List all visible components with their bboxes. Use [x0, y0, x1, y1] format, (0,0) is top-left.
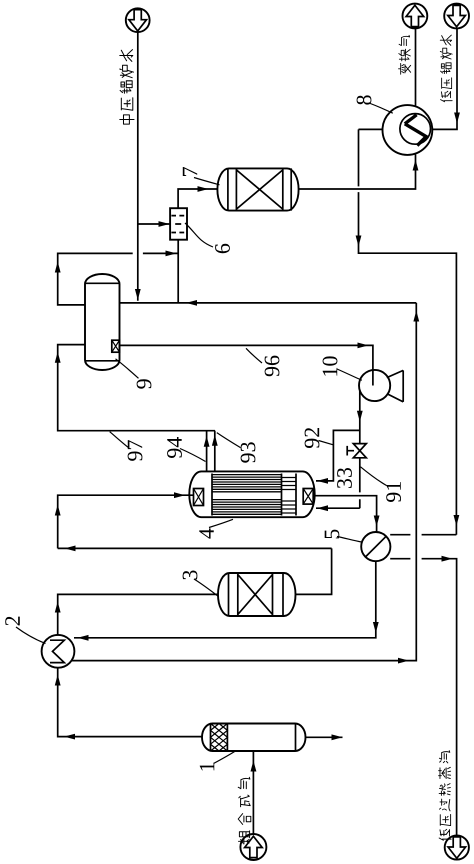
- heat exchanger 2: [42, 635, 75, 668]
- stream label: raw syngas (粗合成气): [238, 777, 251, 844]
- wire: pump 10 discharge through valve 91 to exchanger 4 lower nozzle: [316, 390, 363, 511]
- separator vessel 1: [202, 724, 306, 752]
- gas cooler 8: [383, 105, 433, 155]
- reactor 7: [217, 168, 298, 210]
- label 3: [183, 570, 198, 579]
- wire: LP boiler water into cooler 8 right: [432, 29, 460, 130]
- stream label: MP boiler water (中压锅炉水): [120, 50, 134, 125]
- label 1: [200, 763, 215, 771]
- waste heat exchanger 4: [189, 471, 314, 517]
- wire: drum 9 upper left outlet to mixer 6: [55, 251, 178, 305]
- wire: reactor 3 outlet line across left: [58, 546, 332, 595]
- label 92: [305, 428, 320, 448]
- stream label: LP superheated steam (低压过热蒸汽): [439, 751, 452, 841]
- mixer 6: [170, 208, 187, 240]
- label 10: [323, 356, 338, 375]
- label 3 leader: [194, 579, 219, 597]
- stream label: shift gas (变换气): [399, 35, 411, 74]
- steam drum 9: [85, 274, 120, 370]
- label 9 leader: [116, 359, 139, 379]
- wire: exchanger 5 bottom to exchanger 2 hot inlet: [74, 561, 379, 641]
- label 7 leader: [194, 178, 220, 185]
- label 94 leader: [180, 449, 206, 462]
- label 4 leader: [209, 519, 233, 527]
- label 5 leader: [337, 537, 362, 543]
- wire: branch 92 to exchanger 4 upper nozzle: [316, 430, 360, 483]
- label 4: [199, 528, 213, 538]
- wire: exchanger 5 right outlet down to LP steam outlet: [390, 556, 456, 836]
- stream symbol: LP superheated steam outlet circle: [445, 835, 469, 859]
- wire: mixer 6 top to reactor 7 inlet: [178, 186, 217, 208]
- stream symbol: MP boiler water inlet circle: [126, 8, 150, 32]
- label 9: [137, 379, 152, 388]
- stream label: LP boiler water (低压锅炉水): [440, 35, 452, 102]
- label 6 leader: [185, 223, 213, 247]
- label 96 leader: [246, 348, 262, 363]
- label 93 leader: [217, 433, 241, 448]
- label 7: [183, 167, 197, 176]
- label 10 leader: [337, 369, 362, 380]
- wire: riser 93 from exchanger 4: [212, 431, 218, 472]
- label 97 leader: [110, 432, 129, 448]
- label 8: [357, 95, 372, 104]
- wire: separator 1 drain arrow: [306, 734, 343, 740]
- label 6: [215, 244, 230, 253]
- reactor 3: [218, 573, 296, 616]
- label 91: [386, 482, 401, 502]
- stream symbol: shift gas outlet circle: [403, 4, 428, 29]
- label 97: [128, 440, 143, 461]
- wire: feed riser into exchanger 4 left nozzle: [55, 492, 194, 548]
- wire: riser header 97 into drum 9 lower left nozzle: [55, 345, 215, 431]
- wire: reactor 7 outlet to cooler 8: [299, 155, 419, 190]
- label 5: [325, 530, 340, 539]
- wire: exchanger 2 top to reactor 3 inlet: [55, 594, 218, 635]
- wire: exchanger 4 right outlet down into exchanger 5: [313, 496, 379, 532]
- label 33: [337, 468, 352, 488]
- label 1 leader: [214, 751, 236, 764]
- wire: drum 9 steam line 96 to pump 10: [120, 343, 373, 386]
- wire: header into drum 9 right nozzle: [119, 300, 416, 306]
- wire: cooler 8 left outlet down and across to exchanger 5: [356, 129, 460, 534]
- label 8 leader: [369, 103, 393, 113]
- wire: MP water branch into mixer 6: [138, 221, 170, 227]
- stream symbol: LP boiler water inlet circle: [444, 4, 469, 29]
- label 2 leader: [16, 627, 46, 644]
- stream symbol: raw syngas inlet circle: [240, 834, 266, 860]
- wire: exchanger 2 outlet right and riser up: [72, 303, 419, 664]
- wire: riser 94 from exchanger 4: [204, 431, 210, 472]
- circulation pump 10: [359, 370, 403, 402]
- wire: separator 1 top outlet to exchanger 2 bottom: [55, 668, 202, 740]
- label 93: [241, 442, 256, 462]
- label 96: [265, 356, 280, 377]
- wire: cooler 8 top to shift gas outlet: [415, 29, 417, 106]
- wire: raw syngas feed into separator 1: [251, 751, 257, 834]
- heat exchanger 5: [361, 532, 390, 561]
- wire: MP boiler water main line: [135, 32, 141, 301]
- valve 91: [347, 444, 366, 458]
- label 94: [167, 437, 182, 458]
- wire: mixer 6 bottom leg: [177, 240, 179, 303]
- label 91 leader: [361, 467, 387, 486]
- label 92 leader: [319, 441, 334, 445]
- label 2: [5, 617, 20, 626]
